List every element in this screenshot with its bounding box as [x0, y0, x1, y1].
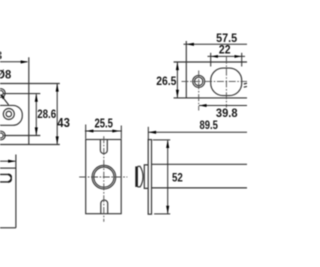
wire box top edge: [0, 167, 16, 169]
wire leader line Ø8: [2, 96, 9, 105]
dimension 57.5 line: [184, 43, 248, 45]
wire body bottom edge: [152, 187, 248, 189]
wire bolt face bar: [135, 166, 138, 187]
dimension 43 line: [56, 84, 58, 144]
svg-text:89.5: 89.5: [200, 120, 219, 132]
dimension top (cut) line: [0, 61, 27, 63]
node case screw hole: [193, 75, 205, 87]
wire box bottom edge: [0, 227, 16, 229]
label fragment at right edge: [244, 83, 247, 87]
svg-text:28.6: 28.6: [37, 107, 56, 121]
arrow 26.5 up: [176, 62, 179, 70]
wire slot opening: [0, 174, 11, 182]
wire face plate bottom cap: [148, 213, 153, 215]
svg-text:57.5: 57.5: [216, 33, 238, 45]
svg-text:39.8: 39.8: [216, 106, 238, 120]
arrow 28.6 down: [35, 127, 38, 135]
arrow 25.5 right: [112, 129, 120, 132]
wire face plate top cap: [148, 139, 153, 141]
arrow 28.6 up: [35, 94, 38, 102]
wire box right edge (and extension up to dim): [15, 155, 17, 228]
dimension bottom-left (cut) line: [0, 160, 15, 162]
wire 22 left extension: [210, 53, 212, 67]
wire bottom hole centre extension: [4, 135, 40, 137]
wire vertical centreline: [103, 136, 105, 222]
wire 25.5 right extension: [120, 126, 122, 139]
wire bottom screw slot: [101, 200, 108, 214]
svg-text:52: 52: [172, 171, 183, 185]
node spindle hole: [92, 165, 116, 189]
wire 52 bottom extension: [154, 213, 170, 215]
node cross bore oval: [211, 68, 242, 96]
arrow 26.5 down: [176, 90, 179, 98]
wire case bottom edge (with extension to 26.5 dim): [174, 97, 247, 99]
svg-text:26.5: 26.5: [156, 76, 177, 88]
wire slot stadium: [0, 105, 22, 125]
wire plate right edge (and extension up to top dimension): [28, 57, 30, 144]
wire face plate front line: [147, 140, 149, 215]
dimension 39.8 line: [199, 105, 247, 107]
arrow 39.8 left: [199, 104, 207, 107]
arrow 52 up: [166, 140, 169, 148]
wire body top edge: [152, 163, 248, 165]
wire bolt nose outline: [138, 166, 144, 187]
dimension 28.6 line: [35, 94, 37, 135]
wire horizontal centreline: [79, 176, 127, 178]
wire bolt collar: [144, 165, 148, 189]
wire 22 right extension: [241, 53, 243, 67]
wire face plate back line: [151, 140, 153, 215]
wire case top edge (with extension to 26.5 dim): [174, 61, 247, 63]
arrow 25.5 left: [86, 129, 94, 132]
arrow 52 down: [166, 206, 169, 214]
wire top screw slot: [100, 139, 107, 153]
arrow 22 left: [211, 55, 218, 58]
dimension 22 line: [208, 55, 246, 57]
wire screw hole vertical centreline: [198, 71, 200, 111]
arrow 57.5 left: [186, 43, 194, 46]
svg-text:38: 38: [0, 48, 2, 62]
dimension 26.5 line: [176, 63, 178, 98]
arrow 22 right: [235, 55, 242, 58]
arrow top dim right: [21, 60, 29, 63]
arrow 89.5 left: [149, 131, 157, 134]
dimension 25.5 line: [85, 130, 122, 132]
svg-text:22: 22: [219, 45, 231, 57]
svg-text:43: 43: [57, 116, 70, 130]
wire face plate outline: [86, 140, 122, 214]
node top screw hole: [0, 89, 5, 98]
wire top hole centre extension: [3, 93, 40, 95]
arrow 43 down: [56, 136, 59, 144]
node slot centre hole: [3, 109, 14, 120]
wire leader arrowhead: [0, 94, 4, 99]
wire case left edge (and extension up to 57.5 dim): [185, 41, 187, 98]
wire plate top edge: [0, 83, 60, 85]
svg-text:Ø8: Ø8: [0, 70, 12, 82]
wire plate bottom edge: [0, 144, 60, 146]
wire 52 top extension: [153, 139, 170, 141]
dimension 52 line: [167, 141, 169, 214]
wire horizontal centreline case: [182, 80, 248, 82]
wire oval vertical centreline: [225, 57, 227, 108]
node bottom screw hole: [0, 131, 5, 140]
arrow 43 up: [56, 84, 59, 92]
wire slot corner marks: [8, 175, 11, 178]
wire 89.5 left extension: [147, 127, 149, 140]
svg-text:25.5: 25.5: [94, 117, 113, 131]
dimension 89.5 line: [149, 131, 248, 133]
wire 25.5 left extension: [85, 125, 87, 139]
arrow bottom-left dim right: [8, 160, 16, 163]
